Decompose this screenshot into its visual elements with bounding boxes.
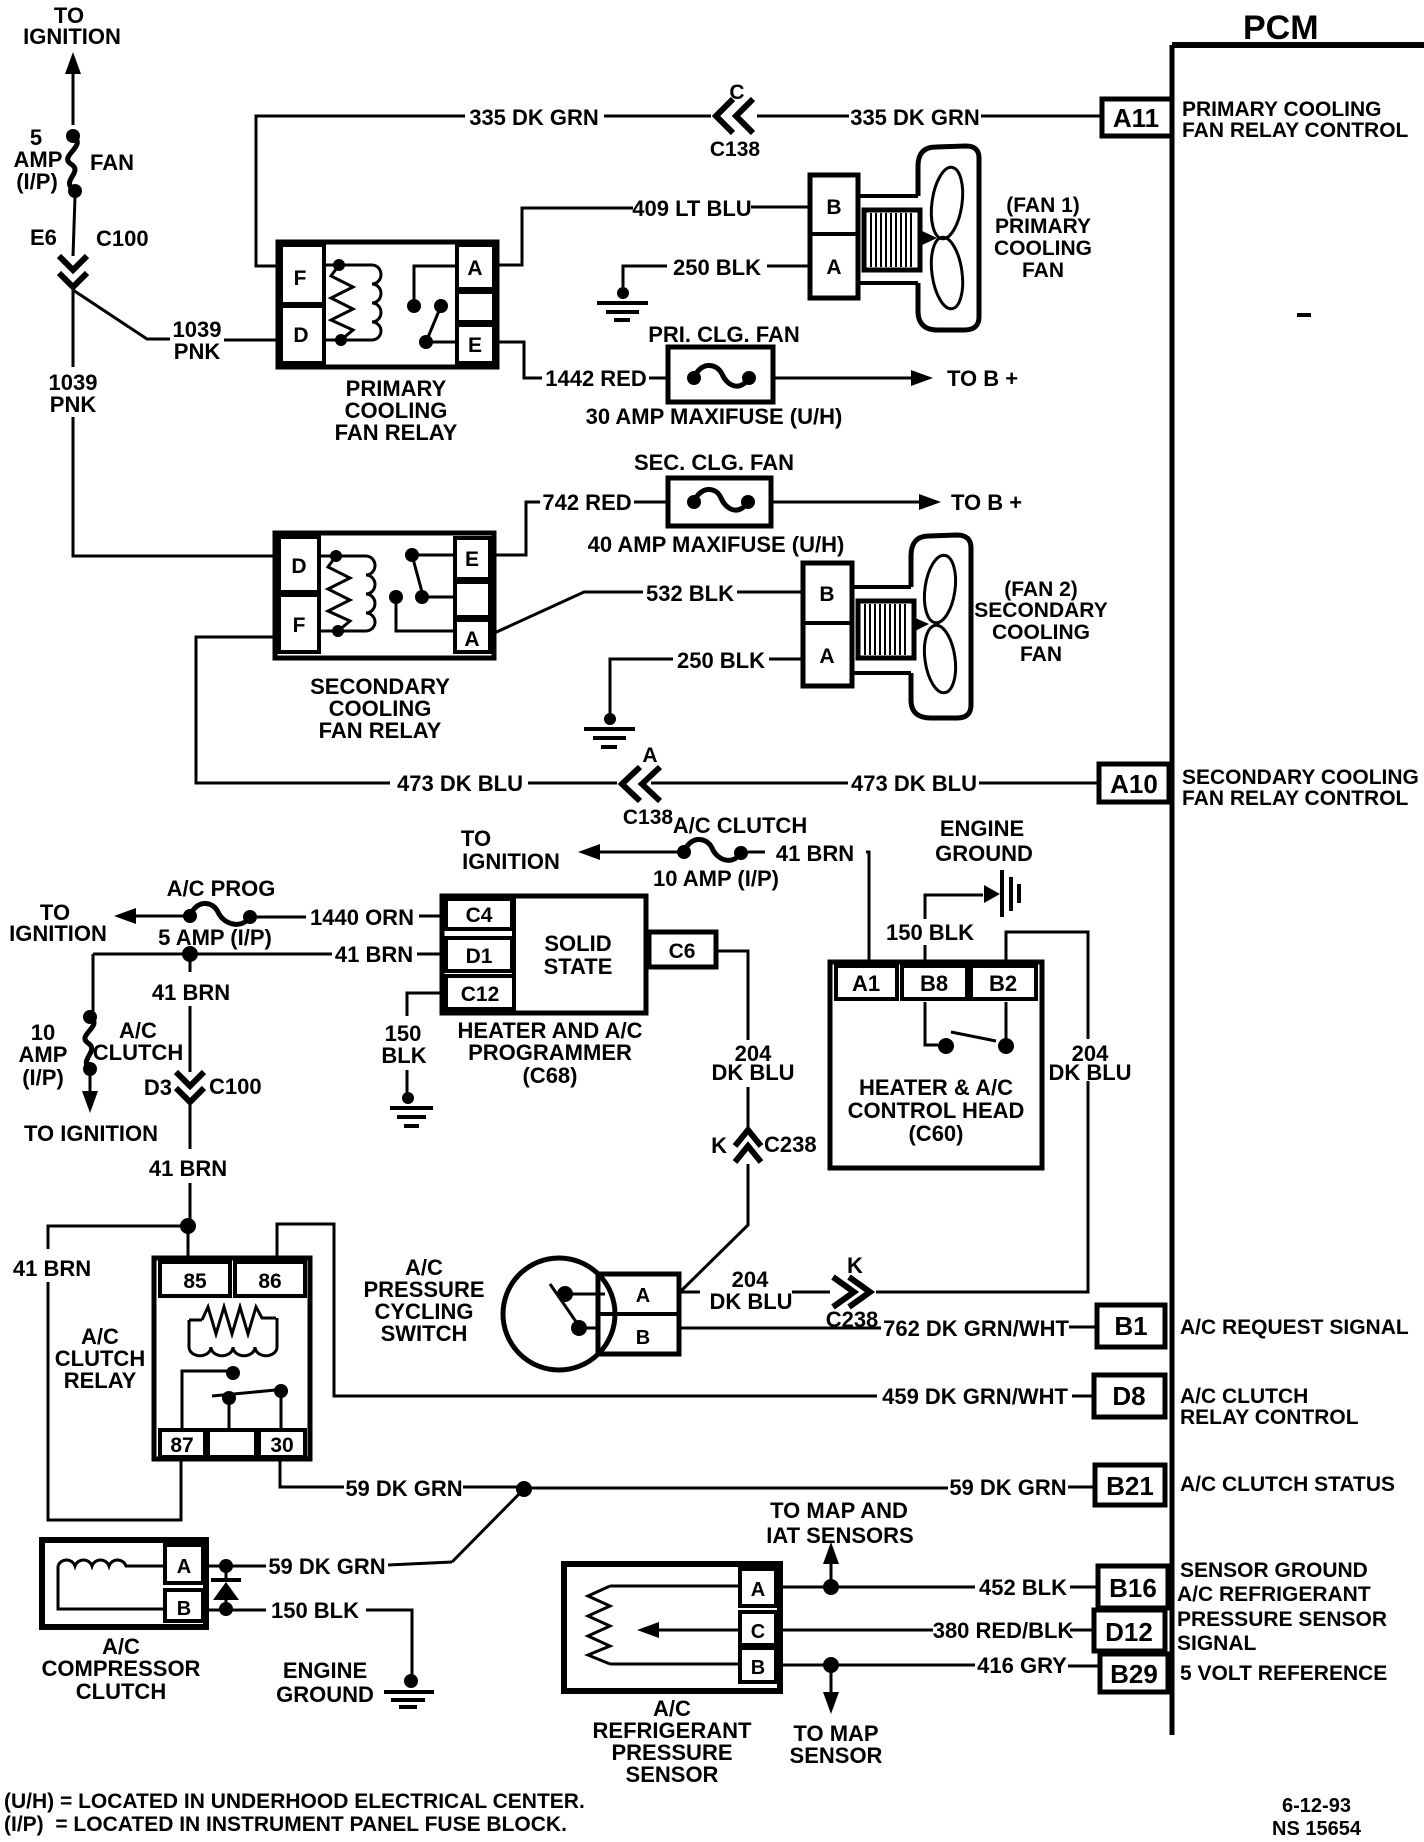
wire 41 BRN to control head A1 bbox=[748, 852, 869, 962]
wire diagonal 59 DK GRN to compressor bbox=[388, 1489, 524, 1565]
svg-text:PRIMARY: PRIMARY bbox=[995, 215, 1091, 238]
label PRESSURE SENSOR bbox=[1177, 1608, 1387, 1631]
secondary relay coil bbox=[319, 550, 375, 637]
wire 150 BLK from C12 to ground bbox=[407, 993, 446, 1093]
svg-text:150 BLK: 150 BLK bbox=[271, 1598, 359, 1623]
svg-text:6-12-93: 6-12-93 bbox=[1282, 1795, 1351, 1817]
svg-text:30: 30 bbox=[270, 1434, 293, 1457]
svg-text:HEATER & A/C: HEATER & A/C bbox=[859, 1075, 1013, 1100]
svg-text:IGNITION: IGNITION bbox=[462, 849, 560, 874]
clutch relay switch bbox=[182, 1366, 288, 1429]
sensor wiper arrow bbox=[637, 1622, 740, 1638]
label 473 DK BLU (left) bbox=[397, 771, 523, 796]
svg-text:A: A bbox=[464, 628, 479, 651]
A/C compressor clutch box bbox=[42, 1540, 206, 1627]
label A/C REFRIGERANT PRESSURE SENSOR bbox=[593, 1696, 752, 1787]
svg-text:A/C CLUTCH STATUS: A/C CLUTCH STATUS bbox=[1180, 1473, 1395, 1496]
programmer pin C4 box bbox=[446, 899, 512, 929]
svg-text:SECONDARY: SECONDARY bbox=[974, 599, 1107, 622]
svg-text:GROUND: GROUND bbox=[276, 1682, 374, 1707]
svg-text:E: E bbox=[465, 548, 479, 571]
label SECONDARY COOLING FAN RELAY CONTROL bbox=[1182, 766, 1419, 810]
fan1 shaft arrow bbox=[920, 230, 937, 246]
wire 532 BLK from relay2 A to fan2 B bbox=[490, 592, 803, 635]
svg-text:A: A bbox=[819, 645, 834, 668]
label A/C CLUTCH STATUS bbox=[1180, 1473, 1395, 1496]
control head pin B2 box bbox=[971, 966, 1036, 999]
svg-text:41 BRN: 41 BRN bbox=[335, 942, 413, 967]
clutch relay pin 30 box bbox=[259, 1430, 305, 1457]
label 150 BLK (compressor) bbox=[271, 1598, 359, 1623]
label ENGINE GROUND (control head) bbox=[935, 816, 1033, 866]
label 762 DK GRN/WHT bbox=[883, 1316, 1069, 1341]
relay pin E box bbox=[457, 325, 494, 363]
wire 416 GRY from sensor B to PCM B29 bbox=[776, 1665, 1100, 1666]
relay2 pin F box bbox=[279, 595, 319, 652]
PCM pin B16 box bbox=[1098, 1566, 1168, 1608]
svg-text:FAN RELAY CONTROL: FAN RELAY CONTROL bbox=[1182, 787, 1409, 810]
svg-text:GROUND: GROUND bbox=[935, 841, 1033, 866]
svg-text:A/C CLUTCH: A/C CLUTCH bbox=[1180, 1385, 1308, 1408]
label 250 BLK (fan2) bbox=[677, 648, 765, 673]
svg-text:D12: D12 bbox=[1105, 1617, 1153, 1647]
label 204 DK BLU (right vertical) bbox=[1048, 1041, 1131, 1085]
svg-text:A: A bbox=[467, 257, 482, 280]
wire 204 DK BLU horizontal from switch A to control head B2 loop bbox=[679, 932, 1088, 1292]
wire 335 DK GRN from relay F up and right bbox=[256, 116, 711, 266]
compressor pin B box bbox=[165, 1590, 203, 1621]
fan2 motor (hatched) bbox=[858, 601, 914, 658]
PCM pin D12 box bbox=[1094, 1610, 1165, 1651]
svg-text:5 AMP (I/P): 5 AMP (I/P) bbox=[158, 925, 272, 950]
label A/C CLUTCH RELAY CONTROL bbox=[1180, 1385, 1359, 1429]
PCM pin D8 box bbox=[1094, 1375, 1165, 1417]
diode across compressor clutch bbox=[211, 1559, 241, 1616]
svg-text:D3: D3 bbox=[144, 1075, 172, 1100]
svg-text:K: K bbox=[847, 1253, 863, 1278]
fan2 connector box pins B A bbox=[803, 563, 852, 686]
fan1 motor neck bbox=[858, 196, 918, 283]
relay pin D box bbox=[281, 306, 324, 363]
relay2 pin A box bbox=[455, 620, 490, 652]
svg-text:BLK: BLK bbox=[381, 1043, 426, 1068]
svg-text:SIGNAL: SIGNAL bbox=[1177, 1632, 1257, 1655]
heater and A/C programmer main box bbox=[442, 896, 646, 1013]
label TO B + (primary) bbox=[947, 366, 1018, 391]
svg-text:30 AMP MAXIFUSE (U/H): 30 AMP MAXIFUSE (U/H) bbox=[586, 404, 843, 429]
label SIGNAL bbox=[1177, 1632, 1257, 1655]
programmer pin C12 box bbox=[446, 976, 514, 1009]
junction 59 DK GRN bbox=[516, 1481, 532, 1497]
compressor clutch coil bbox=[58, 1560, 165, 1609]
fan2 blade bottom bbox=[920, 623, 959, 695]
svg-text:RELAY: RELAY bbox=[64, 1368, 137, 1393]
wire 41 BRN loop to relay 85 and 87 bbox=[48, 1226, 188, 1520]
wire arrow down to MAP sensor bbox=[823, 1672, 839, 1714]
label 5 AMP (I/P) bbox=[158, 925, 272, 950]
svg-text:D: D bbox=[293, 324, 308, 347]
ground (programmer) bbox=[390, 1092, 433, 1126]
wire 1039 PNK vertical to secondary relay bbox=[73, 290, 275, 556]
A/C pressure cycling switch circle bbox=[503, 1258, 615, 1370]
svg-text:TO B +: TO B + bbox=[951, 490, 1022, 515]
svg-text:FAN: FAN bbox=[1022, 259, 1064, 282]
junction 452 BLK bbox=[823, 1579, 839, 1595]
wire arrow left to ignition (prog) bbox=[114, 908, 185, 924]
svg-text:250 BLK: 250 BLK bbox=[677, 648, 765, 673]
svg-text:B29: B29 bbox=[1110, 1659, 1158, 1689]
relay pin A box bbox=[457, 245, 494, 289]
svg-text:A/C PROG: A/C PROG bbox=[167, 876, 276, 901]
label 204 DK BLU (on horizontal) bbox=[709, 1267, 792, 1314]
svg-text:(C60): (C60) bbox=[908, 1121, 963, 1146]
svg-text:B2: B2 bbox=[989, 971, 1017, 996]
svg-text:409 LT BLU: 409 LT BLU bbox=[632, 196, 751, 221]
note NS 15654 bbox=[1272, 1818, 1362, 1840]
svg-text:459 DK GRN/WHT: 459 DK GRN/WHT bbox=[882, 1384, 1068, 1409]
secondary relay switch bbox=[389, 548, 455, 631]
PCM pin B1 box bbox=[1097, 1305, 1165, 1347]
junction 41 BRN lower bbox=[180, 1218, 196, 1234]
label 459 DK GRN/WHT bbox=[882, 1384, 1068, 1409]
wire to B+ (secondary) with arrow bbox=[771, 494, 941, 510]
svg-text:E6: E6 bbox=[30, 225, 57, 250]
svg-text:C138: C138 bbox=[623, 806, 674, 829]
svg-text:FAN: FAN bbox=[90, 150, 134, 175]
svg-text:RELAY CONTROL: RELAY CONTROL bbox=[1180, 1406, 1359, 1429]
relay pin F box bbox=[281, 245, 324, 304]
svg-text:C100: C100 bbox=[96, 226, 149, 251]
svg-text:TO IGNITION: TO IGNITION bbox=[24, 1121, 158, 1146]
svg-text:CLUTCH: CLUTCH bbox=[76, 1679, 166, 1704]
wire to B+ (primary) with arrow bbox=[773, 370, 933, 386]
PCM pin A11 box bbox=[1102, 99, 1172, 136]
svg-text:C6: C6 bbox=[669, 940, 696, 963]
svg-text:1440 ORN: 1440 ORN bbox=[310, 905, 414, 930]
fan1 shroud bbox=[918, 146, 979, 330]
connector C238 pin K chevron (horizontal) bbox=[826, 1253, 879, 1332]
label 150 BLK (programmer) bbox=[381, 1021, 426, 1068]
svg-text:41 BRN: 41 BRN bbox=[776, 841, 854, 866]
svg-text:(I/P): (I/P) bbox=[22, 1065, 64, 1090]
stray mark bbox=[1297, 313, 1311, 317]
label PRIMARY COOLING FAN RELAY bbox=[335, 376, 458, 445]
label 41 BRN (to D1) bbox=[335, 942, 413, 967]
fuse A/C PROG 5 AMP (I/P) bbox=[183, 903, 257, 924]
PCM label bbox=[1243, 9, 1319, 47]
svg-text:NS 15654: NS 15654 bbox=[1272, 1818, 1362, 1840]
svg-text:473 DK BLU: 473 DK BLU bbox=[851, 771, 977, 796]
svg-text:A: A bbox=[826, 256, 841, 279]
junction 41 BRN bbox=[182, 946, 198, 962]
svg-text:IGNITION: IGNITION bbox=[23, 24, 121, 49]
connector C138 pin C chevron bbox=[710, 81, 761, 161]
wire arrow left to ignition bbox=[578, 844, 678, 860]
label A/C CLUTCH (10A fuse top) bbox=[673, 813, 807, 838]
label TO IGNITION (bottom left) bbox=[24, 1121, 158, 1146]
sensor pin B box bbox=[740, 1648, 776, 1682]
svg-text:AMP: AMP bbox=[19, 1042, 68, 1067]
svg-text:335 DK GRN: 335 DK GRN bbox=[469, 105, 599, 130]
label TO B + (secondary) bbox=[951, 490, 1022, 515]
svg-text:FAN RELAY CONTROL: FAN RELAY CONTROL bbox=[1182, 119, 1409, 142]
PCM pin A10 box bbox=[1099, 764, 1169, 802]
clutch relay pin 85 box bbox=[160, 1262, 230, 1296]
svg-text:(I/P): (I/P) bbox=[16, 169, 58, 194]
label PRIMARY COOLING FAN RELAY CONTROL bbox=[1182, 98, 1409, 142]
connector C238 pin K chevron (vertical) bbox=[711, 1130, 816, 1162]
svg-text:D1: D1 bbox=[466, 945, 493, 968]
fan2 motor neck bbox=[852, 587, 911, 673]
svg-text:B: B bbox=[826, 196, 841, 219]
label 742 RED bbox=[542, 490, 631, 515]
svg-text:41 BRN: 41 BRN bbox=[149, 1156, 227, 1181]
clutch relay middle pin box bbox=[208, 1430, 256, 1457]
svg-text:COOLING: COOLING bbox=[992, 621, 1090, 644]
label 59 DK GRN (right) bbox=[949, 1475, 1066, 1500]
svg-text:A: A bbox=[751, 1579, 765, 1601]
svg-text:C12: C12 bbox=[461, 983, 500, 1006]
wire 380 RED/BLK from sensor C to PCM D12 bbox=[776, 1629, 1094, 1632]
wire fuse to C100 bbox=[73, 197, 75, 256]
clutch relay pin 86 box bbox=[235, 1262, 305, 1296]
fan2 blade top bbox=[920, 553, 959, 625]
svg-text:F: F bbox=[294, 267, 307, 290]
label 41 BRN (far left) bbox=[13, 1256, 91, 1281]
svg-text:41 BRN: 41 BRN bbox=[13, 1256, 91, 1281]
svg-text:PRIMARY COOLING: PRIMARY COOLING bbox=[1182, 98, 1382, 121]
label 250 BLK (fan1) bbox=[673, 255, 761, 280]
label (FAN 1) PRIMARY COOLING FAN bbox=[994, 194, 1092, 282]
relay middle right box bbox=[457, 292, 494, 322]
clutch relay coil bbox=[189, 1307, 277, 1356]
label 59 DK GRN (compressor) bbox=[268, 1554, 385, 1579]
svg-text:40 AMP MAXIFUSE (U/H): 40 AMP MAXIFUSE (U/H) bbox=[588, 532, 845, 557]
svg-text:SOLID: SOLID bbox=[544, 931, 611, 956]
heater & A/C control head box bbox=[830, 962, 1042, 1168]
svg-text:C138: C138 bbox=[710, 138, 761, 161]
label 335 DK GRN (right) bbox=[850, 105, 980, 130]
sensor pin A box bbox=[740, 1569, 776, 1606]
label A/C COMPRESSOR CLUTCH bbox=[42, 1634, 201, 1704]
svg-text:C100: C100 bbox=[209, 1074, 262, 1099]
svg-text:C4: C4 bbox=[466, 904, 493, 927]
sensor pin C box bbox=[740, 1612, 776, 1645]
label SOLID STATE bbox=[544, 931, 613, 979]
svg-text:380 RED/BLK: 380 RED/BLK bbox=[933, 1618, 1074, 1643]
svg-text:A1: A1 bbox=[852, 971, 880, 996]
svg-text:473 DK BLU: 473 DK BLU bbox=[397, 771, 523, 796]
label A/C PRESSURE CYCLING SWITCH bbox=[363, 1255, 484, 1346]
svg-text:A: A bbox=[636, 1285, 650, 1307]
svg-text:59 DK GRN: 59 DK GRN bbox=[268, 1554, 385, 1579]
wire 742 RED from relay2 E to maxifuse 40A bbox=[490, 502, 668, 555]
svg-text:COOLING: COOLING bbox=[994, 237, 1092, 260]
label 532 BLK bbox=[646, 581, 734, 606]
svg-text:D8: D8 bbox=[1112, 1381, 1145, 1411]
svg-text:B16: B16 bbox=[1109, 1573, 1157, 1603]
svg-text:STATE: STATE bbox=[544, 954, 613, 979]
label 204 DK BLU (below C6) bbox=[711, 1041, 794, 1085]
svg-text:A: A bbox=[177, 1556, 191, 1578]
svg-text:SEC. CLG. FAN: SEC. CLG. FAN bbox=[634, 450, 794, 475]
svg-text:C238: C238 bbox=[764, 1132, 817, 1157]
wire 150 BLK from compressor B to engine ground bbox=[203, 1610, 412, 1676]
ground (engine, bottom) bbox=[384, 1674, 434, 1707]
label 10 AMP (I/P) bbox=[653, 866, 779, 891]
svg-text:86: 86 bbox=[258, 1270, 281, 1293]
note date bbox=[1282, 1795, 1351, 1817]
svg-text:FAN: FAN bbox=[1020, 643, 1062, 666]
svg-text:TO: TO bbox=[461, 826, 491, 851]
svg-text:SENSOR GROUND: SENSOR GROUND bbox=[1180, 1559, 1368, 1582]
svg-text:B: B bbox=[636, 1327, 650, 1349]
svg-text:SWITCH: SWITCH bbox=[381, 1321, 468, 1346]
label TO MAP AND IAT SENSORS bbox=[766, 1498, 914, 1548]
label TO MAP SENSOR bbox=[790, 1721, 883, 1768]
label A/C CLUTCH RELAY bbox=[55, 1324, 145, 1393]
sensor resistive element bbox=[588, 1586, 740, 1664]
A/C refrigerant pressure sensor box bbox=[564, 1564, 780, 1691]
connector C100 pin D3 chevron bbox=[144, 1072, 262, 1102]
A/C clutch relay outline bbox=[154, 1258, 310, 1459]
node TO IGNITION (fan fuse feed) bbox=[23, 3, 121, 49]
node TO IGNITION (A/C prog fuse) bbox=[9, 900, 107, 946]
primary relay coil bbox=[325, 259, 381, 346]
svg-text:C: C bbox=[729, 81, 744, 104]
wire 452 BLK from sensor A to PCM B16 bbox=[776, 1586, 1098, 1589]
fan2 shaft arrow bbox=[913, 617, 929, 632]
programmer pin C6 box bbox=[649, 932, 716, 967]
label HEATER & A/C CONTROL HEAD (C60) bbox=[848, 1075, 1025, 1146]
wire 250 BLK fan1 to ground bbox=[623, 266, 810, 287]
svg-text:335 DK GRN: 335 DK GRN bbox=[850, 105, 980, 130]
fan1 blade top bbox=[927, 165, 967, 240]
label 150 BLK (control head) bbox=[886, 920, 974, 945]
wire down to 10 AMP fuse bbox=[92, 954, 95, 1012]
svg-text:250 BLK: 250 BLK bbox=[673, 255, 761, 280]
svg-text:59 DK GRN: 59 DK GRN bbox=[949, 1475, 1066, 1500]
svg-text:85: 85 bbox=[183, 1270, 207, 1293]
label PRI. CLG. FAN bbox=[648, 322, 800, 347]
PCM pin B29 box bbox=[1100, 1654, 1168, 1692]
svg-text:ENGINE: ENGINE bbox=[283, 1658, 367, 1683]
svg-text:E: E bbox=[468, 334, 482, 357]
wire 204 DK BLU from C6 down to pressure switch A bbox=[681, 951, 748, 1291]
svg-text:A11: A11 bbox=[1113, 103, 1159, 133]
ground (primary fan) bbox=[597, 287, 648, 320]
svg-text:(FAN 1): (FAN 1) bbox=[1006, 194, 1080, 217]
svg-text:10 AMP (I/P): 10 AMP (I/P) bbox=[653, 866, 779, 891]
svg-text:A/C REQUEST SIGNAL: A/C REQUEST SIGNAL bbox=[1180, 1316, 1409, 1339]
label 1039 PNK (to relay D) bbox=[173, 317, 222, 364]
label ENGINE GROUND (bottom) bbox=[276, 1658, 374, 1707]
svg-text:FAN RELAY: FAN RELAY bbox=[319, 718, 442, 743]
fuse A/C CLUTCH 10 AMP (I/P) bbox=[677, 839, 748, 860]
svg-text:1442 RED: 1442 RED bbox=[545, 366, 647, 391]
relay2 middle right box bbox=[455, 582, 490, 617]
relay2 pin D box bbox=[279, 537, 319, 592]
wire 459 DK GRN/WHT from relay 86 to PCM D8 bbox=[277, 1224, 1094, 1396]
svg-text:A10: A10 bbox=[1110, 769, 1158, 799]
label A/C PROG bbox=[167, 876, 276, 901]
label (FAN 2) SECONDARY COOLING FAN bbox=[974, 578, 1107, 666]
svg-text:IGNITION: IGNITION bbox=[9, 921, 107, 946]
wire 1039 PNK diagonal to primary relay D bbox=[73, 290, 278, 340]
label 1440 ORN bbox=[310, 905, 414, 930]
label 41 BRN (lower) bbox=[149, 1156, 227, 1181]
svg-text:(FAN 2): (FAN 2) bbox=[1004, 578, 1078, 601]
svg-text:532 BLK: 532 BLK bbox=[646, 581, 734, 606]
node TO IGNITION (A/C clutch fuse) bbox=[461, 826, 560, 874]
PCM pin B21 box bbox=[1095, 1465, 1165, 1505]
wire 335 DK GRN to PCM A11 bbox=[757, 115, 1102, 118]
programmer pin D1 box bbox=[446, 938, 512, 971]
wire 409 LT BLU from relay A to fan connector B bbox=[497, 207, 810, 265]
fuse 30 AMP MAXIFUSE box bbox=[668, 347, 773, 402]
label A/C REFRIGERANT bbox=[1177, 1583, 1371, 1606]
label 416 GRY bbox=[977, 1653, 1067, 1678]
svg-text:(U/H) = LOCATED IN UNDERHOOD E: (U/H) = LOCATED IN UNDERHOOD ELECTRICAL … bbox=[4, 1790, 585, 1813]
svg-text:C: C bbox=[751, 1621, 765, 1643]
svg-text:(I/P) = LOCATED IN INSTRUMENT: (I/P) = LOCATED IN INSTRUMENT PANEL FUSE… bbox=[4, 1813, 567, 1836]
fan1 connector box pins B A bbox=[810, 175, 858, 298]
clutch relay pin 87 box bbox=[160, 1430, 205, 1457]
wire arrow up to MAP/IAT bbox=[823, 1542, 839, 1581]
svg-text:A: A bbox=[642, 744, 657, 767]
wire 59 DK GRN from compressor A bbox=[203, 1565, 266, 1568]
label SENSOR GROUND bbox=[1180, 1559, 1368, 1582]
label 452 BLK bbox=[979, 1575, 1067, 1600]
label SECONDARY COOLING FAN RELAY bbox=[310, 674, 450, 743]
connector C100 double chevron bbox=[59, 256, 87, 287]
svg-text:A/C REFRIGERANT: A/C REFRIGERANT bbox=[1177, 1583, 1371, 1606]
label 335 DK GRN (left) bbox=[469, 105, 599, 130]
label 380 RED/BLK bbox=[933, 1618, 1074, 1643]
label 473 DK BLU (right) bbox=[851, 771, 977, 796]
svg-text:TO B +: TO B + bbox=[947, 366, 1018, 391]
label 409 LT BLU bbox=[632, 196, 751, 221]
wire 1442 RED from relay E to maxifuse bbox=[497, 342, 668, 378]
pressure switch connector pins A B bbox=[598, 1274, 679, 1354]
svg-text:PCM: PCM bbox=[1243, 9, 1319, 47]
svg-text:B: B bbox=[751, 1657, 765, 1679]
primary cooling fan relay outline bbox=[278, 242, 497, 367]
svg-text:B21: B21 bbox=[1106, 1471, 1154, 1501]
svg-text:PNK: PNK bbox=[174, 339, 221, 364]
svg-text:(C68): (C68) bbox=[522, 1063, 577, 1088]
wire arrow up to ignition bbox=[65, 52, 81, 125]
ground (engine, sideways) bbox=[984, 870, 1019, 917]
label 41 BRN (to A1) bbox=[776, 841, 854, 866]
svg-text:TO MAP AND: TO MAP AND bbox=[770, 1498, 908, 1523]
wire arrow down to ignition bbox=[82, 1075, 98, 1113]
ground (secondary fan) bbox=[584, 713, 635, 747]
wire 762 DK GRN/WHT from switch B to PCM B1 bbox=[679, 1327, 1097, 1328]
svg-text:PRI. CLG. FAN: PRI. CLG. FAN bbox=[648, 322, 800, 347]
svg-text:B: B bbox=[819, 583, 834, 606]
wire 1440 ORN to programmer C4 bbox=[257, 916, 443, 917]
fuse FAN 5 AMP (I/P) bbox=[14, 125, 134, 198]
footnote I/P bbox=[4, 1813, 567, 1836]
compressor pin A box bbox=[165, 1545, 203, 1583]
svg-text:150 BLK: 150 BLK bbox=[886, 920, 974, 945]
svg-text:5 VOLT REFERENCE: 5 VOLT REFERENCE bbox=[1180, 1662, 1387, 1685]
primary relay switch bbox=[407, 266, 457, 349]
svg-text:SECONDARY COOLING: SECONDARY COOLING bbox=[1182, 766, 1419, 789]
junction 416 GRY bbox=[823, 1657, 839, 1673]
svg-text:DK BLU: DK BLU bbox=[709, 1289, 792, 1314]
